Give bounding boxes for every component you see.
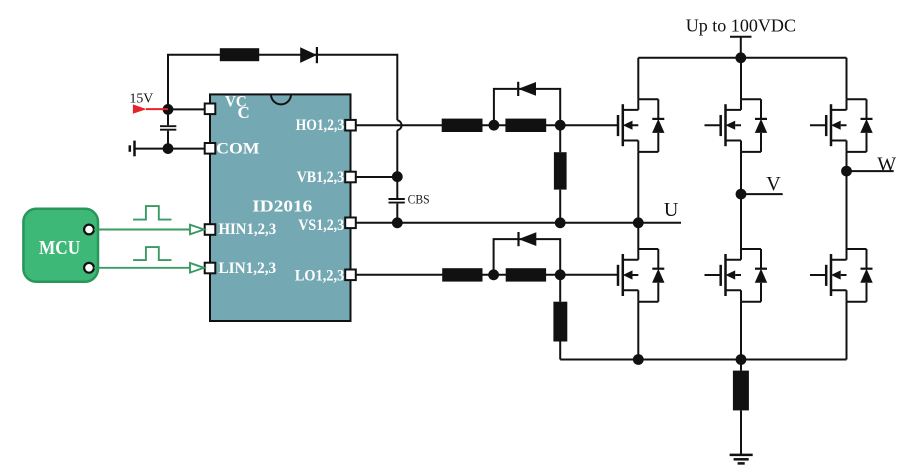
svg-text:U: U (664, 199, 679, 221)
svg-text:LO1,2,3: LO1,2,3 (295, 267, 345, 284)
svg-text:HIN1,2,3: HIN1,2,3 (219, 221, 277, 238)
svg-text:15V: 15V (130, 92, 154, 107)
svg-text:ID2016: ID2016 (252, 197, 312, 216)
svg-text:Up to 100VDC: Up to 100VDC (686, 15, 796, 35)
svg-text:VB1,2,3: VB1,2,3 (297, 169, 345, 186)
svg-text:LIN1,2,3: LIN1,2,3 (219, 260, 277, 277)
svg-text:W: W (877, 153, 896, 175)
svg-text:CBS: CBS (408, 193, 430, 207)
svg-text:VS1,2,3: VS1,2,3 (298, 217, 344, 234)
svg-text:C: C (238, 103, 250, 122)
svg-text:V: V (766, 173, 781, 195)
svg-text:MCU: MCU (39, 237, 80, 259)
svg-text:COM: COM (216, 141, 260, 158)
svg-text:HO1,2,3: HO1,2,3 (296, 117, 345, 134)
